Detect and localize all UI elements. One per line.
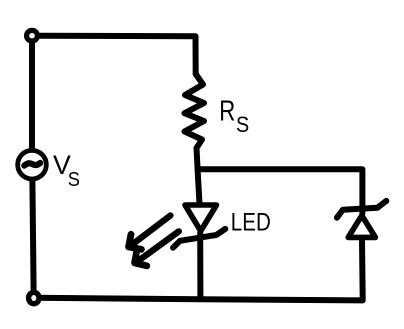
svg-text:R: R (219, 96, 235, 128)
svg-text:S: S (68, 169, 80, 191)
svg-text:S: S (236, 112, 249, 137)
svg-text:LED: LED (231, 209, 271, 237)
